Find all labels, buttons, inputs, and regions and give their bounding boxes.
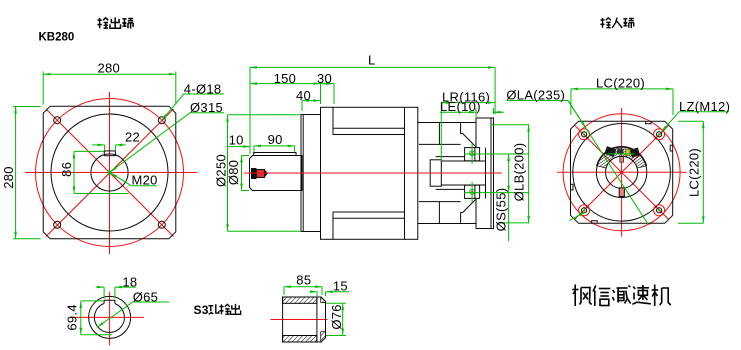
dim 280 left: dimension line <box>15 107 17 239</box>
bolt hole BR <box>158 221 165 228</box>
output flange phi250 <box>301 115 321 232</box>
svg-text:ØS(55): ØS(55) <box>494 188 509 232</box>
svg-text:85: 85 <box>296 273 311 288</box>
dim LE(10): arrows outside <box>469 111 476 113</box>
bolt circle phi315 (red) <box>36 99 184 247</box>
body corner line top <box>333 107 405 134</box>
dim phiS(55): tail <box>508 193 510 241</box>
bolt hole TL <box>54 117 61 124</box>
dim LR(116): dimension line <box>441 102 495 104</box>
bolt hole TL <box>582 132 587 137</box>
diagonal TR-BL <box>575 126 668 219</box>
screw center mark top <box>470 151 475 156</box>
dim 18: extensions <box>103 287 105 298</box>
dim phiS(55): extensions <box>464 153 529 155</box>
dim LR(116): extension <box>440 103 442 161</box>
clamp screw head <box>617 148 624 155</box>
svg-text:ØLB(200): ØLB(200) <box>511 143 526 202</box>
cap hatch bottom <box>321 332 326 342</box>
input flange square LC220 <box>571 121 673 223</box>
clamp screw block bottom <box>465 185 480 198</box>
leader LZ(M12) <box>661 112 679 133</box>
svg-text:18: 18 <box>122 274 137 289</box>
svg-text:40: 40 <box>296 88 311 103</box>
dim L: dimension line <box>250 66 495 68</box>
dim 280 top: extension lines <box>42 72 44 105</box>
leader phiLA(235) <box>568 101 648 225</box>
clamp nut right (dark) <box>630 148 640 158</box>
dim 18: left arrow <box>96 286 104 288</box>
flange chamfer line <box>302 115 304 232</box>
svg-text:Ø76: Ø76 <box>329 304 344 329</box>
dim 86: extension bottom <box>74 193 129 195</box>
centerline vertical <box>109 92 111 254</box>
svg-text:280: 280 <box>1 166 16 189</box>
svg-text:10: 10 <box>229 133 244 148</box>
motor flange ring <box>476 118 494 229</box>
dim LC(220) right: extensions <box>678 120 703 122</box>
dim 22 keyway: extensions <box>104 145 106 150</box>
motor shaft top line <box>436 156 465 158</box>
centerline vertical <box>621 108 623 237</box>
body rim line bottom <box>333 217 405 219</box>
svg-text:4-Ø18: 4-Ø18 <box>184 82 222 97</box>
dim 150: dimension line <box>250 83 321 85</box>
clamp nut left (dark) <box>604 146 616 157</box>
svg-text:150: 150 <box>274 71 297 86</box>
spigot circle <box>573 124 671 222</box>
diagonal centerline TL-BR <box>46 109 174 237</box>
svg-text:Ø65: Ø65 <box>133 289 158 304</box>
bolt center marks green <box>583 133 660 211</box>
bell shelf top <box>419 143 461 145</box>
dim phi250: extensions <box>228 114 302 116</box>
svg-text:LE(10): LE(10) <box>440 99 481 114</box>
dim LE(10): text underline <box>440 111 474 113</box>
svg-text:L: L <box>368 53 376 68</box>
output shaft phi80 <box>250 156 303 191</box>
bell shelf bottom <box>419 201 461 203</box>
body right band <box>404 107 406 239</box>
bolt hole BL <box>54 221 61 228</box>
dim 40: extension <box>301 101 303 111</box>
dim 22: left arrow segment <box>92 144 105 146</box>
dim L: extensions <box>249 67 251 150</box>
dim LC(220) top: dimension line <box>571 88 673 90</box>
centerline <box>271 319 328 321</box>
leader at BL bolt <box>570 212 586 221</box>
screw centerline bottom <box>471 182 473 203</box>
clamp hatch ring (top) <box>597 146 647 168</box>
bolt hole TR red ring <box>654 129 665 140</box>
notch bottom edge <box>592 221 598 224</box>
body rim line top <box>333 127 405 129</box>
motor shaft bore top <box>441 160 485 162</box>
gearbox body outline <box>321 107 418 239</box>
dim 280 left: extension lines <box>13 106 41 108</box>
bolt hole BL <box>582 208 587 213</box>
motor flange spigot line <box>485 148 487 199</box>
outer circle <box>89 296 131 338</box>
motor shaft bottom line <box>436 188 465 190</box>
svg-text:LZ(M12): LZ(M12) <box>679 99 730 114</box>
dim phi76: dimension line <box>342 303 344 335</box>
cap divider <box>316 297 318 342</box>
notch top edge <box>646 121 652 124</box>
top wall hatched <box>283 297 317 303</box>
centerline vertical <box>109 292 111 346</box>
bell pocket vertical bottom <box>438 202 440 224</box>
dim 10: dimension line <box>228 146 251 148</box>
dim 86: dimension line <box>73 151 75 193</box>
dim 85: extensions <box>283 287 285 295</box>
dim 22: right arrow segment <box>115 144 125 146</box>
bolt circle phiLA 235 (red) <box>563 114 680 231</box>
cap hatch top <box>321 297 326 303</box>
dim phi80: extensions <box>242 155 250 157</box>
svg-text:15: 15 <box>333 278 348 293</box>
bolt hole BL red ring <box>579 205 590 216</box>
centerline horizontal <box>25 172 197 174</box>
svg-text:LC(220): LC(220) <box>596 76 645 91</box>
dim phi76: extensions <box>326 302 346 304</box>
keyway slot bottom (red fill) <box>619 188 624 197</box>
dim 90: extensions <box>253 146 255 152</box>
svg-text:22: 22 <box>125 129 140 144</box>
M20 tapped hole: red bore <box>257 170 265 178</box>
sleeve outer rect <box>283 297 326 342</box>
svg-text:69.4: 69.4 <box>64 304 79 331</box>
bolt hole BR <box>657 208 662 213</box>
dim 40: dimension line <box>302 100 321 102</box>
centerline horizontal <box>71 316 144 318</box>
clamp screw axis (green) <box>608 153 635 155</box>
dim phi80: dimension line <box>241 156 243 191</box>
leader 4-phi18 <box>162 94 224 120</box>
bolt hole TR <box>657 132 662 137</box>
svg-text:M20: M20 <box>132 173 158 188</box>
coupling collar <box>430 160 441 186</box>
label 枫信减速机 (brand) <box>572 285 671 307</box>
dim 30: dimension line <box>321 83 335 85</box>
center mark green <box>108 171 112 175</box>
body corner line bottom <box>333 212 405 239</box>
keyway slot <box>104 300 115 303</box>
dim 15: arrows <box>311 291 317 293</box>
diagonal centerline TR-BL <box>46 109 174 237</box>
shaft keyway strip 90 <box>254 153 296 156</box>
bore circle phi65 <box>94 303 124 332</box>
bolt hole TR <box>158 117 165 124</box>
dim 85: dimension line <box>284 286 322 288</box>
output shaft end phi80 <box>91 154 128 191</box>
clamp key (yellow) <box>626 149 630 155</box>
diagonal TL-BR <box>575 126 668 219</box>
pilot circle phi250 <box>51 114 168 231</box>
bell step bottom-right <box>461 200 476 224</box>
dim phiLB(200): dimension line <box>528 125 530 223</box>
bolt hole TL red ring <box>579 129 590 140</box>
dim 10: extensions <box>227 131 229 147</box>
flange square 280x280 <box>43 106 176 239</box>
leader phi315 <box>110 113 224 172</box>
coupling circle <box>596 147 646 197</box>
dim 90: dimension line <box>254 145 295 147</box>
clamp screw block top <box>465 148 480 161</box>
dim 280 top: dimension line <box>43 73 176 75</box>
svg-text:KB280: KB280 <box>39 32 75 44</box>
motor shaft bore bottom <box>441 184 485 186</box>
svg-text:ØLA(235): ØLA(235) <box>506 88 565 103</box>
keyway on shaft <box>104 151 115 156</box>
leader M20 <box>110 173 156 186</box>
dim 69.4: extensions <box>81 300 104 302</box>
dim 15: extensions <box>316 292 318 296</box>
svg-text:86: 86 <box>59 162 74 177</box>
notch left edge <box>571 184 574 190</box>
notch right edge <box>670 145 673 151</box>
label 输出端 (output end) <box>97 17 133 28</box>
centerline horizontal <box>557 171 687 173</box>
svg-text:S3: S3 <box>194 303 209 317</box>
screw centerline top <box>471 144 473 165</box>
dim LE(10): extensions <box>475 108 477 118</box>
input bell housing bottom <box>418 223 476 225</box>
dim phiLA(235): text underline <box>506 100 568 102</box>
label 输入端 (input end) <box>600 18 633 28</box>
dim 30: extensions <box>320 84 322 104</box>
bell step top-right <box>461 123 476 147</box>
svg-text:Ø315: Ø315 <box>190 100 223 115</box>
dim 86: extension top <box>74 150 104 152</box>
dim 18: right arrow <box>115 286 136 288</box>
keyway slot top (red fill) <box>620 157 624 163</box>
bolt hole BR red ring <box>654 205 665 216</box>
input bell housing top <box>418 122 476 124</box>
svg-text:90: 90 <box>268 132 283 147</box>
dim LZ(M12): text underline <box>679 111 729 113</box>
M20 tapped hole: black part <box>251 168 257 179</box>
svg-text:Ø80: Ø80 <box>226 160 241 185</box>
svg-text:280: 280 <box>98 61 121 76</box>
leader phi65 <box>97 302 169 327</box>
bell pocket vertical top <box>438 123 440 145</box>
bore circle <box>606 156 638 188</box>
dim phiLB(200): extensions <box>491 124 530 126</box>
dim phiS(55): dimension line <box>508 154 510 193</box>
screw center mark bottom <box>470 189 475 194</box>
dim phi250: dimension line <box>227 115 229 231</box>
dim LC(220) right: dimension line <box>702 121 704 223</box>
bottom wall hatched <box>283 336 317 343</box>
M20 drill tip <box>265 170 269 178</box>
leader phiLA arrowhead <box>568 101 586 129</box>
dim LC(220) top: extensions <box>570 89 572 115</box>
svg-text:LC(220): LC(220) <box>687 148 702 197</box>
dim 69.4: dimension line <box>80 301 82 335</box>
svg-text:30: 30 <box>317 71 332 86</box>
motor flange inner line <box>490 118 492 229</box>
main centerline <box>244 172 502 174</box>
